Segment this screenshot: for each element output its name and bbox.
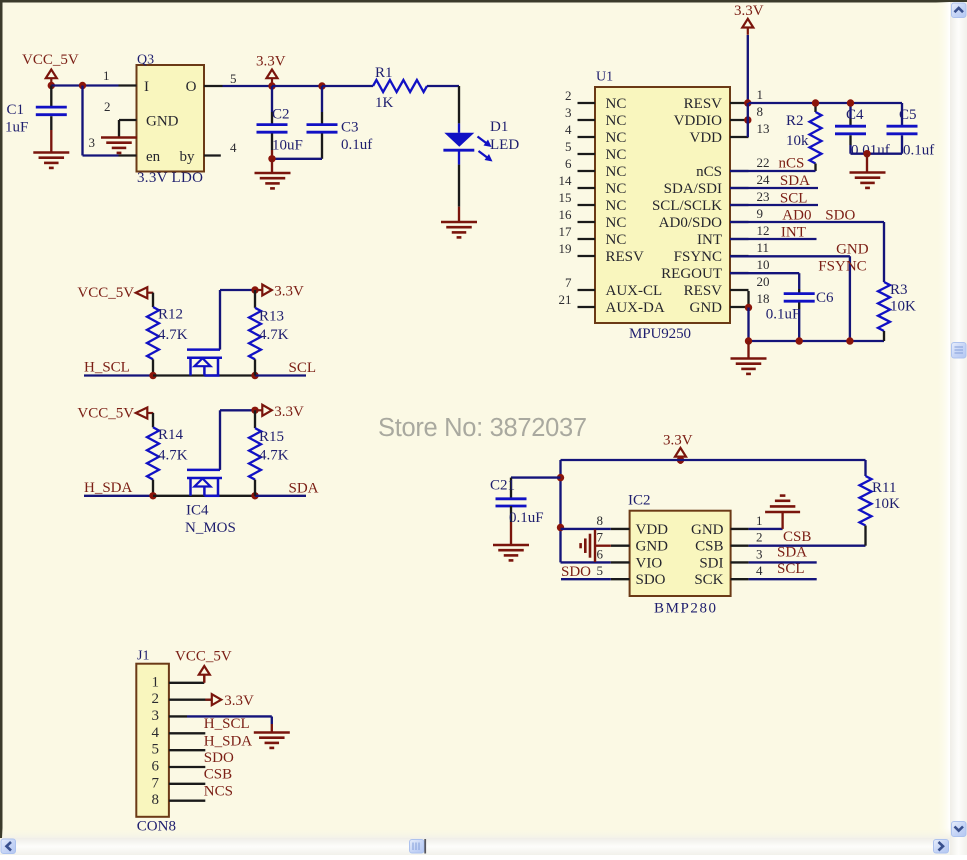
pin 14 stub U1	[578, 187, 596, 189]
ground (C21)	[493, 545, 529, 560]
svg-text:8: 8	[597, 513, 604, 528]
pin 2 stub U1	[578, 102, 596, 104]
svg-text:NC: NC	[606, 181, 627, 197]
svg-text:4: 4	[565, 122, 572, 137]
capacitor C6	[766, 290, 834, 341]
svg-text:SDA/SDI: SDA/SDI	[664, 181, 722, 197]
pin 1 stub Q3	[119, 84, 137, 86]
pin name VDD (U1)	[690, 130, 723, 146]
pin number 5 (U1)	[565, 139, 572, 154]
net label H_SDA (J1)	[204, 734, 253, 750]
wire rail left drop	[561, 460, 611, 562]
svg-text:1: 1	[757, 87, 764, 102]
IC IC2 body	[630, 511, 731, 596]
pin number 10 (U1)	[757, 257, 770, 272]
svg-text:15: 15	[559, 190, 572, 205]
resistor R3	[878, 282, 916, 341]
bottom edge fade	[2, 828, 950, 838]
pin name SDO (IC2)	[636, 572, 666, 588]
svg-text:3.3V: 3.3V	[256, 54, 286, 70]
node C4/C5 ground junction	[863, 150, 870, 157]
svg-text:CON8: CON8	[137, 819, 176, 835]
wire gate to 3.3V	[220, 290, 255, 350]
node 3.3V junction (SDA)	[251, 407, 258, 414]
wire SCL net (IC2)	[749, 578, 817, 580]
ground (C4/C5)	[850, 154, 886, 188]
svg-text:1: 1	[152, 674, 160, 690]
svg-text:nCS: nCS	[779, 156, 805, 172]
pin name NC (U1)	[606, 130, 627, 146]
svg-text:7: 7	[152, 775, 160, 791]
wire H_SCL middle	[153, 374, 255, 376]
net label H_SCL (J1)	[204, 716, 250, 732]
designator D1	[490, 119, 508, 135]
ground (J1 pin3)	[254, 733, 290, 748]
net label SCL	[289, 360, 317, 376]
capacitor C5	[887, 103, 935, 159]
wire en branch to Q3 pin 3	[83, 154, 119, 156]
svg-text:20: 20	[757, 274, 770, 289]
pin name SDI (IC2)	[699, 555, 723, 571]
svg-text:CSB: CSB	[695, 539, 723, 555]
pin 5 wire H_SDA	[169, 749, 205, 751]
svg-text:nCS: nCS	[696, 164, 722, 180]
wire SCL net	[730, 204, 818, 206]
wire C3 node to R1	[322, 85, 373, 87]
pin 4 stub U1	[578, 136, 596, 138]
svg-text:SDA: SDA	[780, 173, 810, 189]
pin name NC (U1)	[606, 181, 627, 197]
resistor R13	[249, 290, 289, 376]
designator IC2	[628, 493, 651, 509]
svg-text:SCL: SCL	[777, 561, 805, 577]
page border left	[0, 2, 3, 838]
pin number 6 (IC2)	[597, 546, 604, 561]
wire pin11 GND net	[730, 256, 850, 341]
svg-text:NC: NC	[606, 215, 627, 231]
svg-text:NC: NC	[606, 96, 627, 112]
resistor R2	[786, 103, 822, 171]
svg-text:NC: NC	[606, 232, 627, 248]
pin name AUX-CL (U1)	[606, 283, 663, 299]
svg-text:MPU9250: MPU9250	[629, 326, 691, 342]
wire en branch vertical	[81, 86, 83, 156]
pin 3 stub U1	[578, 119, 596, 121]
svg-text:C5: C5	[899, 107, 917, 123]
pin name NC (U1)	[606, 164, 627, 180]
pin 1 wire to VCC_5V	[169, 675, 204, 683]
pin 24 stub U1	[730, 187, 749, 189]
svg-text:SCL: SCL	[780, 191, 808, 207]
pin number 2 (U1)	[565, 88, 572, 103]
svg-text:4.7K: 4.7K	[158, 327, 188, 343]
capacitor C1	[5, 86, 67, 152]
pin number 12 (U1)	[757, 223, 770, 238]
svg-text:0.1uF: 0.1uF	[766, 307, 801, 323]
pin 9 stub U1	[730, 221, 749, 223]
wire Q3 output to 3.3V node	[223, 85, 273, 87]
svg-text:10K: 10K	[874, 496, 900, 512]
net label AD0	[782, 208, 811, 224]
svg-text:J1: J1	[137, 649, 149, 664]
pin 16 stub U1	[578, 221, 596, 223]
wire H_SDA left	[84, 495, 153, 497]
wire pin20 to pin18	[747, 291, 749, 308]
wire CSB net	[749, 545, 866, 547]
pin 22 stub U1	[730, 170, 749, 172]
node VDD junction	[557, 524, 564, 531]
wire VDD row	[561, 528, 611, 530]
pin 4 stub Q3	[204, 154, 221, 156]
svg-text:12: 12	[757, 223, 770, 238]
pin number 7 (U1)	[565, 275, 572, 290]
pin name VDDIO (U1)	[674, 113, 722, 129]
vertical scrollbar down button	[952, 822, 967, 837]
svg-text:NC: NC	[606, 113, 627, 129]
svg-text:R13: R13	[259, 309, 284, 325]
svg-text:NC: NC	[606, 164, 627, 180]
svg-text:1: 1	[756, 513, 763, 528]
pin number 20 (U1)	[757, 274, 770, 289]
vertical scrollbar thumb	[952, 343, 967, 359]
svg-text:CSB: CSB	[204, 767, 232, 783]
pin number 4 (Q3)	[230, 140, 237, 155]
svg-text:D1: D1	[490, 119, 508, 135]
net label SDO (U1)	[825, 208, 855, 224]
resistor R12	[147, 293, 188, 376]
svg-text:9: 9	[757, 206, 764, 221]
svg-text:GND: GND	[836, 242, 869, 258]
pin 7 stub IC2	[611, 545, 630, 547]
svg-text:3: 3	[565, 105, 572, 120]
svg-text:VCC_5V: VCC_5V	[22, 52, 79, 68]
svg-text:H_SDA: H_SDA	[84, 480, 133, 496]
pin 2 stub Q3	[119, 120, 137, 137]
svg-text:3.3V: 3.3V	[224, 693, 254, 709]
pin name FSYNC (U1)	[674, 249, 722, 265]
pin 2 stub IC2	[731, 545, 749, 547]
pin 3 stub IC2	[731, 561, 749, 563]
pin 13 stub U1	[730, 136, 749, 138]
svg-text:11: 11	[757, 240, 770, 255]
designator Q3	[137, 53, 154, 68]
power port VCC_5V (H_SDA)	[77, 405, 153, 421]
svg-text:8: 8	[152, 792, 160, 808]
wire LED to ground	[458, 165, 460, 222]
wire SDO row (IC2)	[561, 578, 611, 580]
svg-text:4.7K: 4.7K	[259, 327, 289, 343]
svg-text:RESV: RESV	[684, 283, 723, 299]
wire gate to 3.3V	[220, 410, 255, 470]
pin 12 stub U1	[730, 238, 749, 240]
svg-text:RESV: RESV	[684, 96, 723, 112]
label 3.3V LDO	[137, 170, 203, 186]
svg-text:C1: C1	[7, 102, 25, 118]
svg-text:R2: R2	[786, 113, 804, 129]
svg-text:GND: GND	[146, 114, 179, 130]
transistor N-MOS (H_SCL/SCL)	[187, 350, 222, 376]
svg-text:2: 2	[756, 530, 763, 545]
svg-text:H_SCL: H_SCL	[84, 360, 130, 376]
pin number 4 (J1)	[152, 725, 160, 741]
pin name NC (U1)	[606, 198, 627, 214]
pin number 6 (U1)	[565, 156, 572, 171]
svg-text:IC2: IC2	[628, 493, 651, 509]
pin number 4 (IC2)	[756, 563, 763, 578]
wire U1 bottom ground rail	[749, 340, 885, 342]
pin number 15 (U1)	[559, 190, 572, 205]
net label SDA	[289, 480, 319, 496]
svg-text:NC: NC	[606, 130, 627, 146]
svg-text:10: 10	[757, 257, 770, 272]
pin name SDA/SDI (U1)	[664, 181, 722, 197]
svg-text:NCS: NCS	[204, 784, 233, 800]
svg-text:23: 23	[757, 189, 770, 204]
node 3.3V junction C2	[268, 82, 275, 89]
svg-text:H_SCL: H_SCL	[204, 716, 250, 732]
svg-text:22: 22	[757, 155, 770, 170]
wire SDA right	[255, 495, 306, 497]
pin name REGOUT (U1)	[661, 266, 722, 282]
ground (C1)	[33, 153, 69, 168]
svg-text:10k: 10k	[786, 133, 809, 149]
svg-text:1: 1	[103, 68, 110, 83]
IC U1 body	[595, 87, 730, 323]
svg-text:Store No: 3872037: Store No: 3872037	[378, 414, 587, 442]
svg-text:4: 4	[756, 563, 763, 578]
label CON8	[137, 819, 176, 835]
pin number 4 (U1)	[565, 122, 572, 137]
svg-text:VCC_5V: VCC_5V	[77, 405, 134, 421]
pin 4 stub IC2	[731, 578, 749, 580]
pin number 1 (U1)	[757, 87, 764, 102]
pin name GND (Q3)	[146, 114, 179, 130]
node en-branch junction	[79, 82, 86, 89]
wire pin1 row to C4/C5	[749, 102, 903, 104]
pin 7 ground tie	[595, 530, 611, 563]
wire pin10 FSYNC net	[730, 272, 799, 274]
svg-text:6: 6	[565, 156, 572, 171]
svg-text:VDDIO: VDDIO	[674, 113, 722, 129]
svg-text:R15: R15	[259, 429, 284, 445]
pin 3 wire to ground	[169, 716, 272, 732]
pin name GND (IC2)	[636, 539, 669, 555]
pin number 22 (U1)	[757, 155, 770, 170]
pin 19 stub U1	[578, 255, 596, 257]
power port 3.3V (SDA)	[256, 404, 304, 420]
horizontal scrollbar right button	[934, 840, 949, 854]
node 3.3V rail junction	[677, 456, 684, 463]
pin name RESV (U1)	[684, 283, 723, 299]
wire 3.3V down to pin1 node	[747, 35, 749, 103]
svg-text:SDI: SDI	[699, 555, 723, 571]
pin number 14 (U1)	[559, 173, 573, 188]
svg-text:2: 2	[565, 88, 572, 103]
power port 3.3V (SCL)	[256, 284, 304, 300]
pin 5 stub U1	[578, 153, 596, 155]
pin 1 stub IC2	[731, 528, 749, 530]
svg-text:0.1uf: 0.1uf	[903, 143, 934, 159]
designator J1	[137, 649, 149, 664]
node rail junction GND net	[846, 337, 853, 344]
power port 3.3V (U1)	[734, 3, 764, 35]
node R2 top junction	[812, 99, 819, 106]
svg-text:3.3V: 3.3V	[274, 404, 304, 420]
designator U1	[596, 70, 613, 85]
svg-text:GND: GND	[691, 522, 724, 538]
label BMP280	[654, 601, 716, 617]
node R14 junction	[149, 492, 156, 499]
pin number 7 (IC2)	[597, 530, 604, 545]
svg-text:by: by	[180, 149, 196, 165]
svg-text:GND: GND	[636, 539, 669, 555]
svg-text:VIO: VIO	[636, 555, 663, 571]
svg-text:SDO: SDO	[825, 208, 855, 224]
pin 6 wire SDO	[169, 766, 205, 768]
pin number 9 (U1)	[757, 206, 764, 221]
page border top	[0, 0, 967, 3]
svg-text:R11: R11	[872, 480, 896, 496]
svg-text:0.1uF: 0.1uF	[509, 510, 544, 526]
pin 23 stub U1	[730, 204, 749, 206]
pin name by	[180, 149, 196, 165]
svg-text:SDO: SDO	[561, 564, 591, 580]
pin number 2 (J1)	[152, 691, 160, 707]
pin 3 stub Q3	[119, 154, 137, 156]
svg-text:R3: R3	[890, 282, 908, 298]
pin number 8 (IC2)	[597, 513, 604, 528]
svg-text:C2: C2	[272, 107, 290, 123]
svg-text:H_SDA: H_SDA	[204, 734, 253, 750]
pin 10 stub U1	[730, 272, 749, 274]
svg-text:BMP280: BMP280	[654, 601, 716, 617]
pin 7 stub U1	[578, 289, 596, 291]
svg-text:SDO: SDO	[204, 750, 234, 766]
svg-text:REGOUT: REGOUT	[661, 266, 722, 282]
pin 2 wire to 3.3V	[169, 698, 212, 700]
pin number 1 (Q3)	[103, 68, 110, 83]
wire SCL right	[255, 374, 306, 376]
node R13 junction	[251, 372, 258, 379]
pin 7 wire CSB	[169, 783, 205, 785]
svg-text:INT: INT	[781, 225, 806, 241]
ground (U1 rail)	[731, 341, 767, 374]
pin name VDD (IC2)	[636, 522, 669, 538]
wire H_SCL left	[84, 374, 153, 376]
power port VCC_5V (top left)	[22, 52, 79, 86]
node 3.3V junction (SCL)	[251, 286, 258, 293]
svg-text:U1: U1	[596, 70, 613, 85]
svg-text:10uF: 10uF	[272, 138, 303, 154]
svg-text:SCL/SCLK: SCL/SCLK	[652, 198, 722, 214]
pin name nCS (U1)	[696, 164, 722, 180]
capacitor C3	[307, 86, 373, 159]
wire R1 to LED	[427, 86, 459, 123]
transistor N-MOS (H_SDA/SDA)	[187, 470, 222, 496]
net label FSYNC	[818, 259, 866, 275]
svg-text:7: 7	[597, 530, 604, 545]
svg-text:AUX-DA: AUX-DA	[606, 300, 665, 316]
svg-text:0.1uf: 0.1uf	[341, 137, 372, 153]
pin name VIO (IC2)	[636, 555, 663, 571]
power port VCC_5V (J1)	[175, 649, 232, 683]
pin number 7 (J1)	[152, 775, 160, 791]
pin number 2 (IC2)	[756, 530, 763, 545]
pin name INT (U1)	[697, 232, 722, 248]
power port VCC_5V (H_SCL)	[77, 285, 153, 301]
svg-text:3.3V: 3.3V	[734, 3, 764, 19]
svg-text:4.7K: 4.7K	[158, 447, 188, 463]
resistor R14	[147, 413, 188, 496]
pin name NC (U1)	[606, 147, 627, 163]
ground (LED)	[441, 222, 477, 237]
svg-text:8: 8	[757, 104, 764, 119]
pin number 3 (IC2)	[756, 546, 763, 561]
pin name GND (IC2)	[691, 522, 724, 538]
pin number 17 (U1)	[559, 224, 573, 239]
svg-text:RESV: RESV	[606, 249, 645, 265]
power port 3.3V (LDO out)	[256, 54, 286, 86]
svg-text:AD0/SDO: AD0/SDO	[659, 215, 723, 231]
net label SDA (U1)	[780, 173, 810, 189]
pin number 1 (IC2)	[756, 513, 763, 528]
wire INT net	[730, 238, 817, 240]
node C21 junction	[557, 474, 564, 481]
svg-text:5: 5	[597, 563, 604, 578]
wire H_SDA middle	[153, 495, 255, 497]
svg-text:NC: NC	[606, 198, 627, 214]
svg-text:VDD: VDD	[636, 522, 669, 538]
svg-text:4.7K: 4.7K	[259, 447, 289, 463]
svg-text:AD0: AD0	[782, 208, 811, 224]
pin name en	[146, 149, 161, 165]
pin 18 stub U1	[730, 306, 749, 308]
pin number 2 (Q3)	[104, 99, 111, 114]
svg-text:3.3V LDO: 3.3V LDO	[137, 170, 203, 186]
label N_MOS	[185, 520, 236, 536]
pin name CSB (IC2)	[695, 539, 723, 555]
svg-text:Q3: Q3	[137, 53, 154, 68]
pin 1 stub U1	[730, 102, 749, 104]
pin number 3 (U1)	[565, 105, 572, 120]
ground (Q3 pin 2)	[101, 138, 137, 153]
svg-text:CSB: CSB	[783, 529, 811, 545]
svg-text:2: 2	[104, 99, 111, 114]
pin number 3 (J1)	[152, 708, 160, 724]
pin number 23 (U1)	[757, 189, 770, 204]
net label SCL (U1)	[780, 191, 808, 207]
svg-text:24: 24	[757, 172, 771, 187]
pin 8 stub IC2	[611, 528, 630, 530]
wire AD0/SDO net	[730, 222, 884, 282]
pin name AUX-DA (U1)	[606, 300, 665, 316]
pin name SCL/SCLK (U1)	[652, 198, 722, 214]
transistor Q3 body	[137, 65, 205, 172]
svg-text:FSYNC: FSYNC	[818, 259, 866, 275]
pin number 1 (J1)	[152, 674, 160, 690]
wire pin18 to ground rail	[747, 308, 749, 342]
net label CSB	[783, 529, 811, 545]
svg-text:3: 3	[756, 546, 763, 561]
wire 3.3V to pin13	[747, 103, 749, 137]
pin name GND (U1)	[690, 300, 723, 316]
net label CSB (J1)	[204, 767, 232, 783]
pin name RESV (U1)	[606, 249, 645, 265]
vertical scrollbar track	[950, 2, 967, 855]
pin 8 stub U1	[730, 119, 749, 121]
net label nCS	[779, 156, 805, 172]
svg-text:SCK: SCK	[694, 572, 723, 588]
